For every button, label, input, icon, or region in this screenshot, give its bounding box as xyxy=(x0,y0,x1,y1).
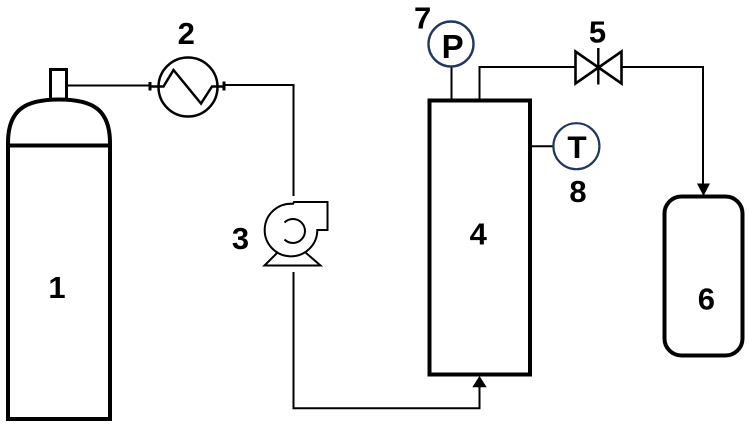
svg-text:P: P xyxy=(442,28,464,65)
svg-text:4: 4 xyxy=(470,217,488,252)
svg-text:7: 7 xyxy=(414,0,431,35)
svg-text:3: 3 xyxy=(232,221,249,256)
svg-text:8: 8 xyxy=(569,174,586,209)
svg-text:6: 6 xyxy=(698,282,715,317)
svg-text:2: 2 xyxy=(178,16,195,51)
svg-text:T: T xyxy=(567,129,586,165)
svg-text:5: 5 xyxy=(589,15,606,50)
svg-text:1: 1 xyxy=(48,270,65,305)
